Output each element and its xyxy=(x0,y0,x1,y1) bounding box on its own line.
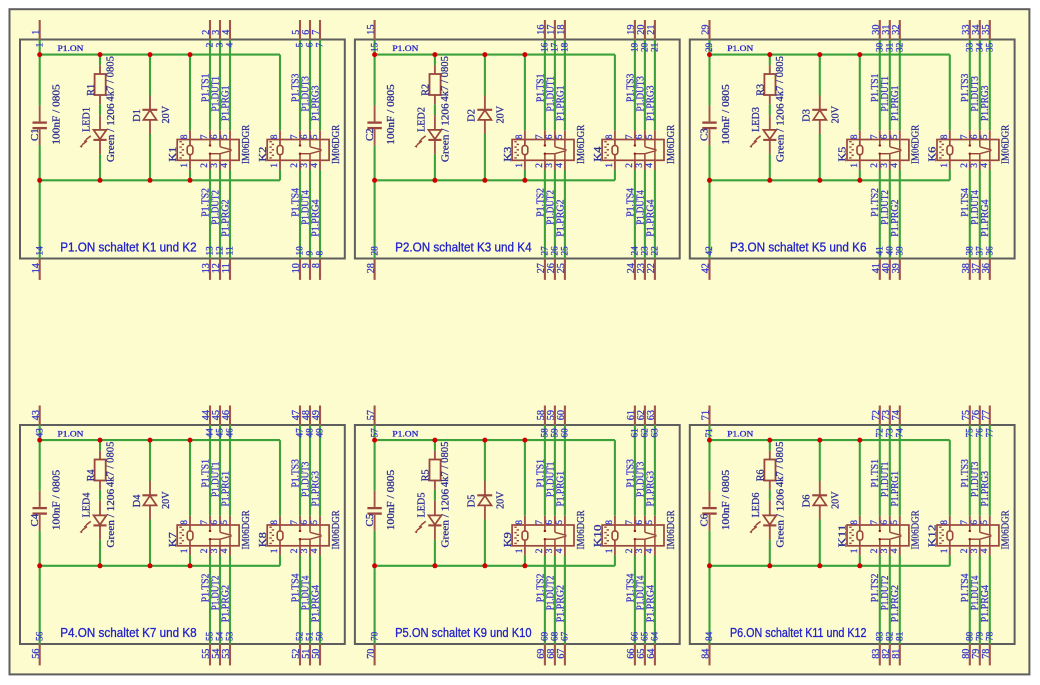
wire sheet stub top xyxy=(889,406,891,426)
svg-text:3: 3 xyxy=(300,548,310,553)
svg-text:42: 42 xyxy=(701,263,712,273)
svg-text:1: 1 xyxy=(940,163,950,168)
LED LED2 xyxy=(415,103,452,162)
wire contact column x310 bottom xyxy=(644,170,646,259)
svg-text:3: 3 xyxy=(545,163,555,168)
wire contact column x230 top xyxy=(564,40,566,131)
svg-text:R5: R5 xyxy=(420,469,432,481)
wire contact column x320 bottom xyxy=(989,170,991,259)
svg-text:8: 8 xyxy=(311,263,322,268)
svg-text:C5: C5 xyxy=(364,513,376,526)
svg-text:P6.ON schaltet K11 und K12: P6.ON schaltet K11 und K12 xyxy=(730,625,867,640)
wire K1 coil to rail xyxy=(189,170,191,181)
junction xyxy=(98,563,103,568)
LED LED6 xyxy=(749,488,786,547)
wire sheet stub bottom xyxy=(899,644,901,665)
junction xyxy=(707,178,712,183)
wire contact column x230 bottom xyxy=(899,556,901,645)
svg-text:23: 23 xyxy=(641,246,651,256)
wire contact column x320 bottom xyxy=(654,170,656,259)
wire sheet stub top xyxy=(564,406,566,426)
svg-text:26: 26 xyxy=(551,246,561,256)
svg-text:65: 65 xyxy=(641,631,651,641)
svg-text:IM06DGR: IM06DGR xyxy=(910,124,922,164)
wire contact column x220 top xyxy=(219,425,221,516)
junction xyxy=(372,52,377,57)
svg-text:6: 6 xyxy=(545,520,555,525)
wire sheet stub top xyxy=(309,406,311,426)
wire D to rail xyxy=(484,520,486,566)
wire rail to K3 coil xyxy=(524,55,526,131)
svg-text:58: 58 xyxy=(541,428,551,438)
wire sheet stub bottom xyxy=(879,259,881,280)
wire rail to K4 coil xyxy=(614,55,616,131)
junction xyxy=(432,52,437,57)
svg-text:2: 2 xyxy=(625,548,635,553)
svg-text:K7: K7 xyxy=(167,532,179,548)
wire rail to K8 coil xyxy=(279,440,281,516)
wire contact column x230 bottom xyxy=(564,170,566,259)
wire contact column x210 top xyxy=(209,425,211,516)
wire rail to D xyxy=(484,440,486,481)
wire left column lower xyxy=(374,531,376,644)
svg-text:P1.PRG4: P1.PRG4 xyxy=(310,200,321,237)
svg-text:48: 48 xyxy=(306,428,316,438)
svg-text:4k7 / 0805: 4k7 / 0805 xyxy=(104,441,116,487)
junction xyxy=(817,178,822,183)
relay K4 xyxy=(592,124,677,170)
wire sheet stub bottom xyxy=(989,259,991,280)
svg-text:4: 4 xyxy=(980,163,990,168)
svg-text:8: 8 xyxy=(316,251,326,256)
svg-text:P4.ON schaltet K7 und K8: P4.ON schaltet K7 und K8 xyxy=(60,625,197,640)
svg-text:Green / 1206: Green / 1206 xyxy=(775,103,787,162)
wire rail to R xyxy=(434,440,436,451)
svg-text:D1: D1 xyxy=(131,109,143,122)
LED LED3 xyxy=(749,103,786,162)
wire contact column x230 top xyxy=(229,40,231,131)
svg-text:K3: K3 xyxy=(502,146,514,162)
wire contact column x210 bottom xyxy=(209,556,211,645)
zener diode D4 xyxy=(131,481,172,520)
svg-text:7: 7 xyxy=(870,520,880,525)
wire bottom return rail xyxy=(710,565,950,567)
svg-text:39: 39 xyxy=(896,246,906,256)
wire sheet stub bottom xyxy=(554,259,556,280)
svg-text:18: 18 xyxy=(561,42,571,52)
wire left column upper xyxy=(708,40,710,106)
resistor R6 xyxy=(755,441,787,490)
junction xyxy=(817,52,822,57)
wire sheet stub bottom xyxy=(654,644,656,665)
capacitor C4 xyxy=(29,469,62,530)
wire sheet stub bottom xyxy=(544,644,546,665)
svg-text:IM06DGR: IM06DGR xyxy=(665,510,677,550)
svg-text:11: 11 xyxy=(221,263,232,273)
svg-text:4: 4 xyxy=(645,548,655,553)
svg-text:4: 4 xyxy=(980,548,990,553)
wire D to rail xyxy=(819,134,821,180)
wire P_ON top rail xyxy=(40,54,280,56)
svg-text:54: 54 xyxy=(216,631,226,641)
wire contact column x300 bottom xyxy=(634,170,636,259)
wire contact column x300 top xyxy=(969,425,971,516)
svg-text:4: 4 xyxy=(555,548,565,553)
svg-text:D3: D3 xyxy=(801,109,813,122)
junction xyxy=(857,563,862,568)
svg-text:C4: C4 xyxy=(29,513,41,526)
wire contact column x210 bottom xyxy=(544,556,546,645)
svg-text:57: 57 xyxy=(370,428,380,438)
wire rail to D xyxy=(819,440,821,481)
svg-text:3: 3 xyxy=(880,548,890,553)
svg-text:71: 71 xyxy=(701,410,712,420)
wire rail to D xyxy=(149,55,151,96)
wire sheet stub top xyxy=(989,20,991,40)
svg-text:5: 5 xyxy=(220,520,230,525)
svg-text:1: 1 xyxy=(35,42,45,47)
wire contact column x300 top xyxy=(969,40,971,131)
wire LED to rail xyxy=(99,154,101,180)
svg-text:32: 32 xyxy=(891,25,902,35)
wire K4 coil to rail xyxy=(614,170,616,181)
wire contact column x230 top xyxy=(899,40,901,131)
svg-text:4: 4 xyxy=(310,548,320,553)
junction xyxy=(98,438,103,443)
svg-text:7: 7 xyxy=(625,520,635,525)
svg-text:R1: R1 xyxy=(85,84,97,96)
wire sheet stub top xyxy=(309,20,311,40)
wire sheet stub top xyxy=(544,20,546,40)
wire K5 coil to rail xyxy=(859,170,861,181)
relay K8 xyxy=(257,510,342,556)
svg-text:Green / 1206: Green / 1206 xyxy=(105,103,117,162)
wire contact column x320 top xyxy=(989,425,991,516)
wire sheet stub top xyxy=(299,20,301,40)
wire sheet stub top xyxy=(969,406,971,426)
wire sheet stub bottom xyxy=(708,644,710,665)
junction xyxy=(767,563,772,568)
svg-text:10: 10 xyxy=(296,246,306,256)
wire bottom return rail xyxy=(40,565,280,567)
svg-text:C2: C2 xyxy=(364,128,376,141)
svg-text:2: 2 xyxy=(206,42,216,47)
svg-text:2: 2 xyxy=(290,548,300,553)
svg-text:D4: D4 xyxy=(131,494,143,507)
svg-text:61: 61 xyxy=(631,428,641,438)
wire sheet stub bottom xyxy=(374,644,376,665)
svg-text:20V: 20V xyxy=(495,491,507,508)
wire K6 coil to rail xyxy=(949,170,951,181)
svg-text:C3: C3 xyxy=(699,128,711,141)
svg-text:LED1: LED1 xyxy=(80,107,92,132)
wire K2 coil to rail xyxy=(279,170,281,181)
wire contact column x220 bottom xyxy=(219,556,221,645)
junction xyxy=(767,178,772,183)
svg-text:8: 8 xyxy=(270,520,280,525)
wire sheet stub bottom xyxy=(879,644,881,665)
svg-text:21: 21 xyxy=(651,42,661,52)
junction xyxy=(188,52,193,57)
svg-text:8: 8 xyxy=(180,134,190,139)
svg-text:4: 4 xyxy=(890,163,900,168)
svg-text:6: 6 xyxy=(880,134,890,139)
svg-text:2: 2 xyxy=(290,163,300,168)
svg-text:78: 78 xyxy=(986,631,996,641)
wire LED to rail xyxy=(769,154,771,180)
wire sheet stub top xyxy=(564,20,566,40)
wire contact column x320 top xyxy=(989,40,991,131)
wire rail to K12 coil xyxy=(949,440,951,516)
svg-text:53: 53 xyxy=(226,631,236,641)
svg-text:P1.PRG4: P1.PRG4 xyxy=(980,200,991,237)
wire sheet stub top xyxy=(554,406,556,426)
svg-text:7: 7 xyxy=(960,134,970,139)
svg-text:P1.PRG3: P1.PRG3 xyxy=(980,86,991,122)
svg-text:28: 28 xyxy=(366,263,377,273)
wire contact column x320 bottom xyxy=(654,556,656,645)
svg-text:5: 5 xyxy=(296,42,306,47)
svg-text:39: 39 xyxy=(891,263,902,273)
junction xyxy=(372,438,377,443)
wire sheet stub bottom xyxy=(299,259,301,280)
svg-text:47: 47 xyxy=(296,428,306,438)
wire contact column x220 bottom xyxy=(219,170,221,259)
svg-text:33: 33 xyxy=(966,42,976,52)
svg-text:44: 44 xyxy=(206,428,216,438)
svg-text:2: 2 xyxy=(870,163,880,168)
svg-text:P1.PRG1: P1.PRG1 xyxy=(555,471,566,507)
svg-text:76: 76 xyxy=(976,428,986,438)
wire contact column x300 top xyxy=(299,40,301,131)
junction xyxy=(148,52,153,57)
svg-text:K8: K8 xyxy=(257,532,269,548)
svg-text:4k7 / 0805: 4k7 / 0805 xyxy=(439,56,451,102)
wire sheet stub top xyxy=(979,406,981,426)
wire sheet stub bottom xyxy=(634,259,636,280)
svg-text:19: 19 xyxy=(631,42,641,52)
wire rail to K1 coil xyxy=(189,55,191,131)
svg-text:2: 2 xyxy=(625,163,635,168)
wire contact column x300 bottom xyxy=(969,170,971,259)
svg-text:IM06DGR: IM06DGR xyxy=(1000,124,1012,164)
wire left column upper xyxy=(39,425,41,491)
wire K12 coil to rail xyxy=(949,555,951,566)
svg-text:80: 80 xyxy=(966,631,976,641)
svg-text:1: 1 xyxy=(180,163,190,168)
svg-text:71: 71 xyxy=(705,428,715,438)
capacitor C2 xyxy=(364,84,397,145)
wire K11 coil to rail xyxy=(859,555,861,566)
wire sheet stub bottom xyxy=(554,644,556,665)
wire sheet stub bottom xyxy=(564,644,566,665)
svg-text:IM06DGR: IM06DGR xyxy=(1000,510,1012,550)
wire bottom return rail xyxy=(710,179,950,181)
svg-text:74: 74 xyxy=(891,410,902,420)
wire contact column x310 top xyxy=(309,425,311,516)
svg-text:60: 60 xyxy=(556,410,567,420)
svg-text:1: 1 xyxy=(180,548,190,553)
svg-text:75: 75 xyxy=(966,428,976,438)
junction xyxy=(767,52,772,57)
svg-text:P1.PRG3: P1.PRG3 xyxy=(310,86,321,122)
svg-text:LED6: LED6 xyxy=(750,492,762,517)
svg-text:1: 1 xyxy=(850,163,860,168)
svg-text:20V: 20V xyxy=(160,106,172,123)
wire contact column x210 top xyxy=(544,40,546,131)
svg-text:51: 51 xyxy=(306,631,316,641)
wire sheet stub top xyxy=(899,406,901,426)
svg-text:P1.PRG1: P1.PRG1 xyxy=(890,86,901,122)
svg-text:D2: D2 xyxy=(466,109,478,122)
wire contact column x310 bottom xyxy=(309,556,311,645)
wire rail to R xyxy=(99,440,101,451)
wire contact column x210 bottom xyxy=(209,170,211,259)
svg-text:9: 9 xyxy=(306,251,316,256)
svg-text:LED4: LED4 xyxy=(80,492,92,517)
svg-text:R3: R3 xyxy=(755,83,767,95)
svg-text:P1.PRG1: P1.PRG1 xyxy=(220,471,231,507)
svg-text:40: 40 xyxy=(886,246,896,256)
wire rail to K10 coil xyxy=(614,440,616,516)
svg-text:5: 5 xyxy=(310,134,320,139)
sheet block 4 border xyxy=(20,425,345,644)
wire sheet stub top xyxy=(229,406,231,426)
wire sheet stub top xyxy=(209,20,211,40)
wire contact column x300 top xyxy=(634,40,636,131)
wire sheet stub top xyxy=(229,20,231,40)
wire contact column x310 top xyxy=(644,425,646,516)
junction xyxy=(432,438,437,443)
svg-text:K11: K11 xyxy=(837,525,849,548)
relay K3 xyxy=(502,124,587,170)
relay K7 xyxy=(167,510,252,556)
svg-text:1: 1 xyxy=(270,548,280,553)
wire sheet stub top xyxy=(219,406,221,426)
junction xyxy=(522,52,527,57)
wire sheet stub top xyxy=(644,406,646,426)
svg-text:R6: R6 xyxy=(755,469,767,481)
wire left column upper xyxy=(374,40,376,106)
wire LED to rail xyxy=(99,540,101,566)
wire contact column x310 bottom xyxy=(979,170,981,259)
wire contact column x210 top xyxy=(544,425,546,516)
svg-text:20V: 20V xyxy=(830,491,842,508)
svg-text:70: 70 xyxy=(370,631,380,641)
svg-text:24: 24 xyxy=(631,246,641,256)
svg-text:4: 4 xyxy=(310,163,320,168)
svg-text:56: 56 xyxy=(35,631,45,641)
relay K11 xyxy=(837,510,922,556)
junction xyxy=(148,563,153,568)
wire sheet stub bottom xyxy=(209,259,211,280)
svg-text:22: 22 xyxy=(646,263,657,273)
svg-text:4: 4 xyxy=(555,163,565,168)
wire sheet stub top xyxy=(889,20,891,40)
svg-text:P3.ON schaltet K5 und K6: P3.ON schaltet K5 und K6 xyxy=(730,240,867,255)
svg-text:P1.PRG2: P1.PRG2 xyxy=(555,585,566,622)
svg-text:1: 1 xyxy=(850,548,860,553)
wire sheet stub top xyxy=(708,406,710,426)
svg-text:15: 15 xyxy=(366,25,377,35)
svg-text:6: 6 xyxy=(970,520,980,525)
svg-text:IM06DGR: IM06DGR xyxy=(240,510,252,550)
svg-text:52: 52 xyxy=(296,631,306,641)
wire D to rail xyxy=(484,134,486,180)
svg-text:LED3: LED3 xyxy=(750,107,762,132)
resistor R1 xyxy=(85,56,117,105)
svg-text:P1.PRG2: P1.PRG2 xyxy=(220,585,231,622)
wire contact column x230 top xyxy=(564,425,566,516)
junction xyxy=(372,563,377,568)
svg-text:63: 63 xyxy=(651,428,661,438)
svg-text:8: 8 xyxy=(515,134,525,139)
svg-text:7: 7 xyxy=(535,134,545,139)
svg-text:4: 4 xyxy=(226,42,236,47)
svg-text:1: 1 xyxy=(515,163,525,168)
svg-text:8: 8 xyxy=(940,134,950,139)
relay K5 xyxy=(837,124,922,170)
wire contact column x230 bottom xyxy=(229,556,231,645)
capacitor C1 xyxy=(29,84,62,145)
svg-text:4k7 / 0805: 4k7 / 0805 xyxy=(439,441,451,487)
wire sheet stub bottom xyxy=(319,644,321,665)
wire sheet stub bottom xyxy=(374,259,376,280)
wire sheet stub top xyxy=(654,20,656,40)
svg-text:43: 43 xyxy=(31,410,42,420)
sheet block 1 border xyxy=(20,40,345,259)
svg-text:K4: K4 xyxy=(592,146,604,162)
svg-text:2: 2 xyxy=(200,163,210,168)
svg-text:32: 32 xyxy=(896,42,906,52)
wire R to LED xyxy=(769,490,771,501)
junction xyxy=(522,438,527,443)
svg-text:IM06DGR: IM06DGR xyxy=(575,124,587,164)
junction xyxy=(188,178,193,183)
svg-text:8: 8 xyxy=(850,520,860,525)
wire R to LED xyxy=(434,490,436,501)
svg-text:1: 1 xyxy=(31,30,42,35)
wire sheet stub top xyxy=(879,406,881,426)
svg-text:7: 7 xyxy=(290,520,300,525)
svg-text:IM06DGR: IM06DGR xyxy=(240,124,252,164)
svg-text:4: 4 xyxy=(220,548,230,553)
svg-text:100nF / 0805: 100nF / 0805 xyxy=(385,84,397,145)
svg-text:IM06DGR: IM06DGR xyxy=(910,510,922,550)
svg-text:6: 6 xyxy=(635,520,645,525)
svg-text:D6: D6 xyxy=(801,494,813,507)
wire contact column x230 bottom xyxy=(899,170,901,259)
wire sheet stub top xyxy=(879,20,881,40)
svg-text:100nF / 0805: 100nF / 0805 xyxy=(50,84,62,145)
svg-text:30: 30 xyxy=(876,42,886,52)
wire sheet stub top xyxy=(39,406,41,426)
svg-text:6: 6 xyxy=(210,520,220,525)
svg-text:7: 7 xyxy=(625,134,635,139)
svg-text:3: 3 xyxy=(545,548,555,553)
junction xyxy=(372,178,377,183)
svg-text:1: 1 xyxy=(515,548,525,553)
wire sheet stub top xyxy=(299,406,301,426)
wire contact column x300 bottom xyxy=(299,170,301,259)
wire K3 coil to rail xyxy=(524,170,526,181)
wire contact column x210 bottom xyxy=(879,170,881,259)
wire sheet stub top xyxy=(634,406,636,426)
svg-text:6: 6 xyxy=(970,134,980,139)
svg-text:78: 78 xyxy=(981,649,992,659)
svg-text:8: 8 xyxy=(270,134,280,139)
wire rail to K7 coil xyxy=(189,440,191,516)
